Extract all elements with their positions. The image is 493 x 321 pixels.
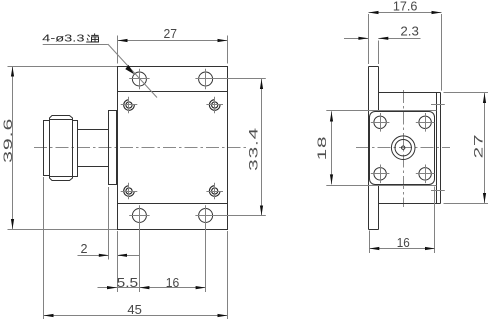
flange hole F2: [416, 113, 435, 132]
svg-text:2: 2: [81, 241, 88, 256]
dim 45 bottom: [44, 177, 228, 319]
threaded hole M3: [121, 183, 138, 200]
connector bore circles: [391, 136, 415, 160]
svg-text:4-ø3.3: 4-ø3.3: [42, 34, 85, 45]
dim 39.6 left: [2, 67, 117, 230]
dim 2.3: [344, 24, 421, 64]
dim 27 right view: [444, 93, 489, 204]
threaded hole M2: [206, 97, 223, 114]
centerline vertical right view: [403, 90, 405, 207]
threaded hole M1: [121, 97, 138, 114]
svg-text:27: 27: [472, 134, 485, 159]
flange hole F1: [371, 113, 390, 132]
dim 16 right view: [369, 187, 435, 254]
hole T1 top-left Ø3.3: [129, 69, 149, 89]
centerline horizontal right view: [356, 147, 450, 149]
svg-text:18: 18: [316, 136, 329, 161]
dim 2: [78, 187, 140, 260]
connector step washer: [73, 121, 78, 177]
svg-text:27: 27: [164, 26, 178, 41]
leader 4-Ø3.3通: [42, 34, 157, 98]
flange square: [370, 112, 435, 185]
dim 17.6 top right view: [369, 0, 442, 91]
right view body block: [379, 93, 441, 204]
svg-text:16: 16: [166, 275, 180, 290]
svg-text:2.3: 2.3: [400, 24, 419, 39]
hole B1 bottom-left Ø3.3: [129, 205, 149, 225]
side hole tick lower: [431, 190, 445, 192]
connector cap: [44, 121, 50, 176]
dim 27 top: [117, 26, 228, 63]
svg-text:17.6: 17.6: [393, 0, 418, 14]
right view plate: [369, 67, 379, 230]
dim 18: [316, 111, 437, 186]
flange hole F3: [371, 165, 390, 184]
connector knurl nut: [50, 116, 73, 181]
flange hole F4: [416, 165, 435, 184]
svg-text:16: 16: [397, 235, 410, 250]
svg-text:39.6: 39.6: [2, 118, 15, 163]
svg-text:45: 45: [127, 302, 141, 317]
hole B2 bottom-right Ø3.3: [195, 205, 215, 225]
connector barrel: [78, 130, 109, 167]
dim 5.5 and 16 bottom: [98, 224, 206, 292]
side hole tick upper: [431, 104, 445, 106]
CJK char 通 drawn: [86, 33, 99, 42]
threaded hole M4: [206, 183, 223, 200]
left view block outline: [118, 67, 228, 230]
dim 33.4 right: [213, 79, 266, 216]
connector flange disc: [109, 111, 117, 185]
hole T2 top-right Ø3.3: [195, 69, 215, 89]
svg-text:5.5: 5.5: [117, 275, 139, 290]
svg-text:33.4: 33.4: [247, 127, 260, 171]
centerline left view: [34, 147, 246, 149]
